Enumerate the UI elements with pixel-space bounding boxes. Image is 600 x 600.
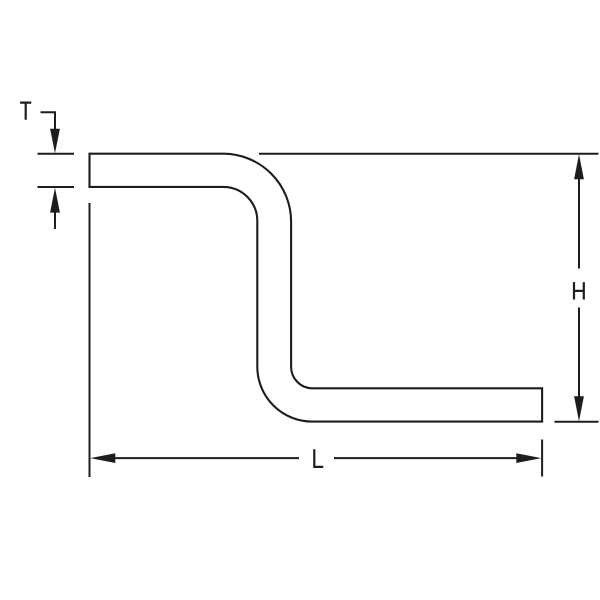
arrow up to bottom face (T) <box>50 188 60 213</box>
extension line top of H <box>259 153 599 155</box>
tail of up arrow (T) <box>54 212 56 229</box>
arrow down (H dimension) <box>574 396 584 421</box>
label T <box>20 102 31 120</box>
right segment of L dimension line <box>334 457 518 459</box>
label H <box>574 282 584 299</box>
label L <box>313 449 323 467</box>
extension line right of L <box>541 440 543 477</box>
extension line bottom of H <box>555 421 599 423</box>
extension line left of L <box>89 203 91 477</box>
arrow left (L dimension) <box>90 453 115 463</box>
left segment of L dimension line <box>115 457 300 459</box>
upper segment of H dimension line <box>578 179 580 269</box>
arrow up (H dimension) <box>574 154 584 179</box>
arrow down to top face (T) <box>50 129 60 154</box>
arrow right (L dimension) <box>516 453 541 463</box>
Z-bracket profile outline <box>90 154 543 422</box>
leader line for T <box>41 112 56 130</box>
extension line top of T <box>38 153 75 155</box>
lower segment of H dimension line <box>578 308 580 398</box>
extension line bottom of T <box>38 186 75 188</box>
